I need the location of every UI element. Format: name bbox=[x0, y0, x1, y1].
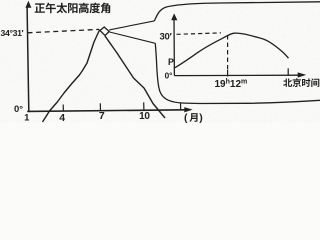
month tick 13 bbox=[180, 102, 182, 110]
label 月 bbox=[190, 113, 198, 122]
main y-axis bbox=[27, 8, 29, 111]
inset curve end tick bbox=[287, 68, 289, 76]
inset x-axis bbox=[174, 74, 298, 76]
scan noise overlay bbox=[0, 0, 1, 1]
diamond marker at peak bbox=[100, 27, 109, 36]
main x-axis arrowhead bbox=[184, 107, 192, 112]
dashed level line at 34°31' bbox=[28, 29, 100, 32]
inset x-axis arrowhead bbox=[298, 72, 307, 77]
month tick 10 bbox=[143, 102, 145, 110]
right flank of altitude curve bbox=[105, 36, 165, 118]
month tick 7 bbox=[99, 103, 101, 111]
callout bubble top edge bbox=[154, 2, 320, 21]
left flank of altitude curve bbox=[43, 30, 100, 123]
inset dashed level line at 30' bbox=[177, 33, 222, 34]
main x-axis bbox=[27, 110, 185, 112]
inset dashed vertical at peak time bbox=[227, 35, 229, 70]
main y-axis arrowhead bbox=[25, 1, 31, 8]
inset curve bbox=[175, 33, 289, 68]
inset y-axis bbox=[173, 19, 175, 76]
inset y-axis arrowhead bbox=[171, 13, 177, 20]
callout tail upper line bbox=[109, 21, 154, 30]
month tick 4 bbox=[62, 105, 64, 112]
callout bubble left and bottom edge bbox=[155, 43, 320, 103]
inset tick below dashed vertical bbox=[227, 70, 229, 77]
title 正午太阳高度角 bbox=[35, 3, 45, 12]
callout tail lower line bbox=[110, 32, 156, 43]
inset label 北京时间 bbox=[283, 78, 292, 86]
